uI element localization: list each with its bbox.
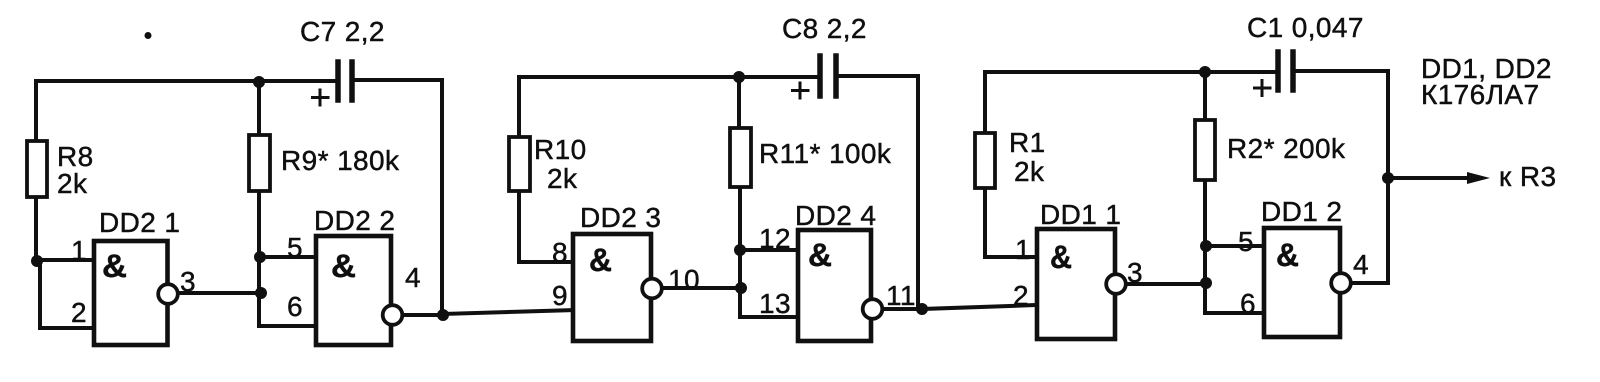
svg-text:DD2 1: DD2 1 bbox=[99, 207, 180, 238]
svg-text:&: & bbox=[1276, 237, 1299, 273]
svg-text:DD1 1: DD1 1 bbox=[1040, 199, 1121, 230]
svg-text:3: 3 bbox=[180, 266, 196, 297]
svg-text:11: 11 bbox=[886, 280, 916, 311]
svg-text:8: 8 bbox=[552, 237, 568, 268]
svg-text:2k: 2k bbox=[1014, 156, 1045, 187]
svg-text:&: & bbox=[589, 242, 612, 278]
svg-text:4: 4 bbox=[405, 262, 421, 293]
svg-text:4: 4 bbox=[1353, 249, 1369, 280]
svg-text:C8 2,2: C8 2,2 bbox=[782, 13, 867, 44]
svg-text:R10: R10 bbox=[534, 134, 587, 165]
svg-text:&: & bbox=[331, 248, 356, 284]
svg-text:&: & bbox=[102, 248, 127, 284]
svg-text:2: 2 bbox=[1013, 280, 1029, 311]
svg-text:10: 10 bbox=[668, 264, 700, 295]
svg-text:12: 12 bbox=[759, 223, 791, 254]
svg-text:2k: 2k bbox=[57, 168, 88, 199]
svg-text:5: 5 bbox=[1238, 226, 1254, 257]
svg-text:1: 1 bbox=[1015, 234, 1031, 265]
svg-text:DD1 2: DD1 2 bbox=[1261, 196, 1342, 227]
svg-text:&: & bbox=[1050, 239, 1072, 275]
svg-text:R2* 200k: R2* 200k bbox=[1227, 133, 1346, 164]
svg-text:R1: R1 bbox=[1009, 127, 1046, 158]
svg-text:к R3: к R3 bbox=[1499, 161, 1556, 192]
svg-text:DD2 2: DD2 2 bbox=[314, 205, 395, 236]
svg-text:6: 6 bbox=[1240, 288, 1256, 319]
svg-text:DD2 3: DD2 3 bbox=[580, 202, 661, 233]
svg-text:2: 2 bbox=[71, 297, 87, 328]
svg-text:1: 1 bbox=[71, 235, 87, 266]
svg-text:2k: 2k bbox=[547, 163, 578, 194]
svg-text:9: 9 bbox=[552, 280, 568, 311]
svg-text:C7 2,2: C7 2,2 bbox=[300, 16, 385, 47]
svg-text:5: 5 bbox=[287, 232, 303, 263]
svg-text:К176ЛА7: К176ЛА7 bbox=[1421, 79, 1539, 110]
svg-text:C1 0,047: C1 0,047 bbox=[1247, 12, 1364, 43]
svg-text:13: 13 bbox=[759, 288, 791, 319]
svg-text:R11* 100k: R11* 100k bbox=[759, 138, 892, 169]
svg-text:R9* 180k: R9* 180k bbox=[281, 145, 400, 176]
svg-text:DD2 4: DD2 4 bbox=[795, 200, 876, 231]
svg-text:6: 6 bbox=[287, 291, 303, 322]
svg-text:&: & bbox=[808, 237, 832, 273]
svg-text:3: 3 bbox=[1127, 257, 1143, 288]
